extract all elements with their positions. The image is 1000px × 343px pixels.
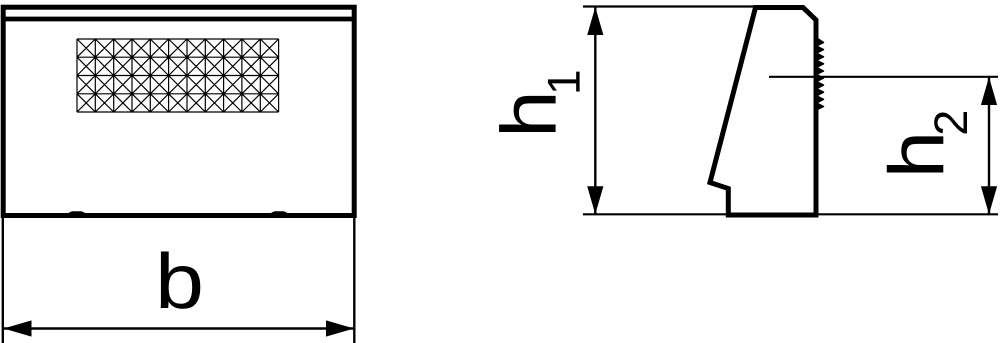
side view body outline xyxy=(710,8,816,216)
b arrow right xyxy=(326,320,354,336)
b arrow left xyxy=(4,320,32,336)
serrated clamping edge xyxy=(816,38,824,111)
h2 extension line top xyxy=(769,76,998,78)
label b xyxy=(161,251,201,308)
label h2 xyxy=(887,136,944,172)
front view body outline xyxy=(3,7,354,215)
h1 dimension line xyxy=(594,7,596,214)
front view top edge line xyxy=(3,17,354,22)
bottom pin bump right xyxy=(269,211,290,216)
h1 arrow top xyxy=(587,7,603,35)
bottom extension line xyxy=(583,213,998,215)
h2 arrow top xyxy=(981,77,997,105)
b extension line right xyxy=(353,216,355,343)
h1 extension line top xyxy=(583,5,757,7)
knurled clamping area xyxy=(77,39,279,112)
h2 arrow bottom xyxy=(981,186,997,214)
b dimension line xyxy=(4,327,355,329)
h1 arrow bottom xyxy=(587,186,603,214)
h2 dimension line xyxy=(988,77,990,214)
label h1 xyxy=(499,96,556,132)
bottom pin bump left xyxy=(67,211,88,216)
b extension line left xyxy=(2,216,4,343)
